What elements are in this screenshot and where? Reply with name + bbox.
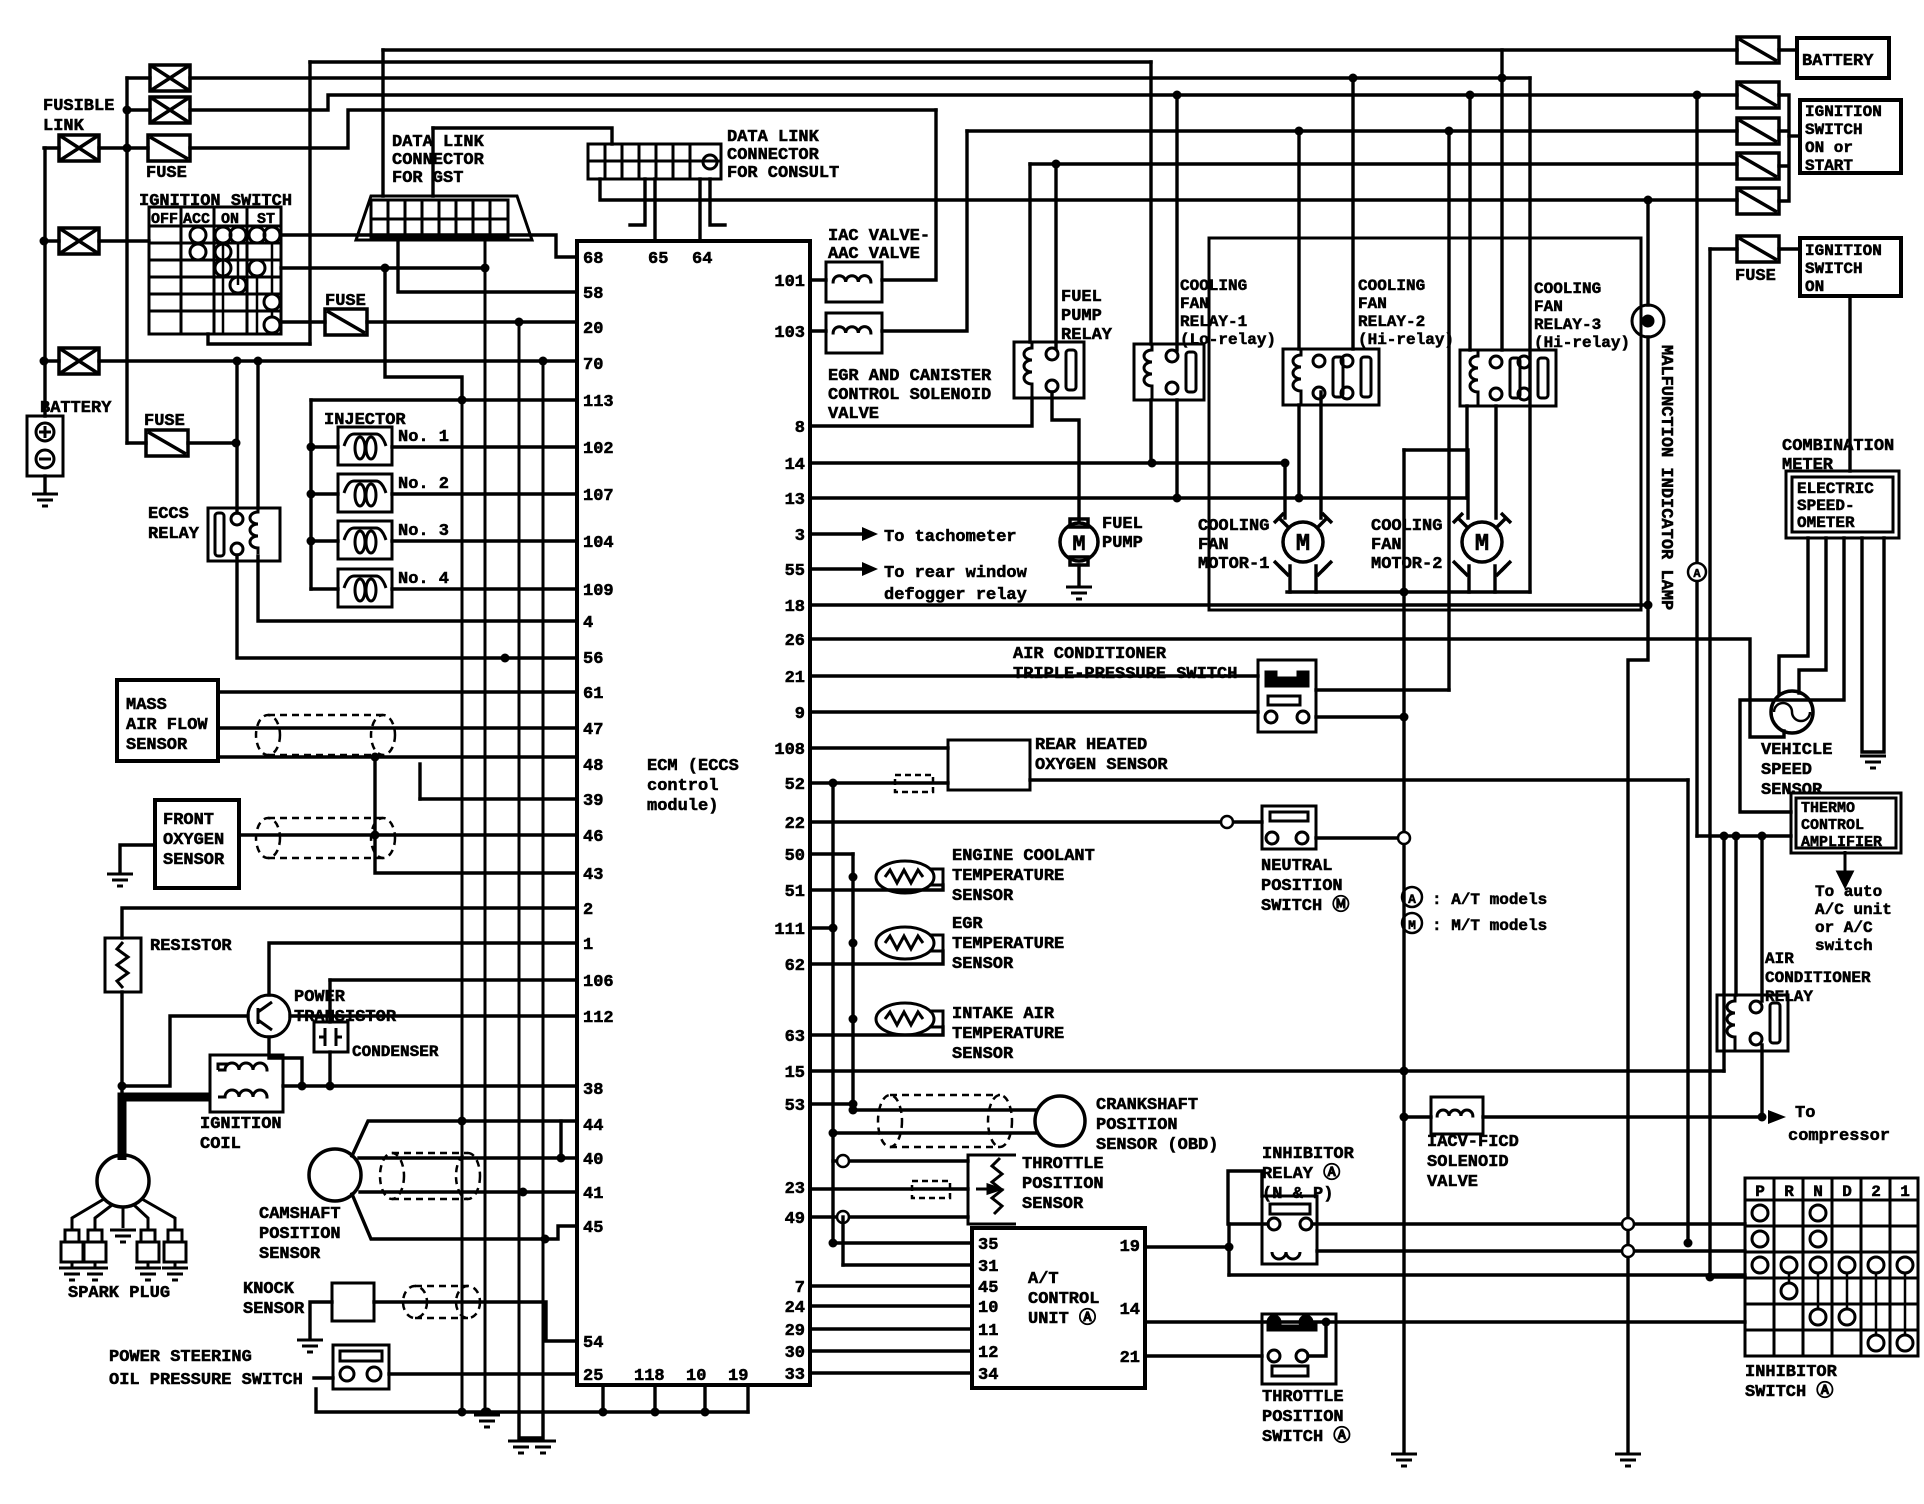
wire V1530 from L3 to motor rail — [1528, 78, 1531, 592]
wire transistor emitter to coil — [269, 1037, 302, 1086]
junction — [1466, 91, 1475, 100]
svg-text:70: 70 — [583, 356, 603, 375]
wire V1688 down to inhibitor line — [1686, 780, 1689, 1243]
svg-text:To tachometer: To tachometer — [884, 528, 1017, 547]
svg-text:SWITCH: SWITCH — [1805, 121, 1863, 139]
svg-text:ST: ST — [257, 211, 275, 228]
shielded cable knock — [403, 1286, 480, 1318]
svg-text:RELAY: RELAY — [148, 525, 200, 544]
wire resistor to coil junction — [120, 992, 123, 1097]
junction — [1644, 196, 1653, 205]
wire ECM pin 7 to A/T 45 — [810, 1284, 972, 1287]
junction — [849, 1106, 858, 1115]
wire A/T 14 line to inhibitor switch — [1145, 1320, 1745, 1323]
wire crank sensor wire 1 — [853, 1108, 1035, 1111]
junction — [118, 1082, 127, 1091]
combination meter label — [1782, 437, 1894, 475]
svg-text:A: A — [1408, 892, 1416, 907]
cooling fan relay-2 K4 — [1283, 349, 1379, 405]
svg-text:33: 33 — [785, 1366, 805, 1385]
svg-text:DATA LINK: DATA LINK — [727, 128, 820, 147]
wire MIL lamp down trunk — [1628, 337, 1648, 1452]
ground MIL trunk — [1615, 1454, 1641, 1466]
svg-text:CONNECTOR: CONNECTOR — [727, 146, 820, 165]
wire ECM pin 111 stub — [810, 926, 833, 929]
wire to FL4 — [44, 239, 59, 242]
junction — [1281, 459, 1290, 468]
svg-text:N: N — [1813, 1183, 1823, 1201]
ECCS relay label — [148, 505, 200, 544]
svg-text:VALVE: VALVE — [1427, 1173, 1478, 1192]
svg-text:3: 3 — [795, 527, 805, 546]
junction — [1400, 1113, 1409, 1122]
svg-text:module): module) — [647, 797, 718, 816]
svg-text:MOTOR-2: MOTOR-2 — [1371, 555, 1442, 574]
wire L5 from fuse F1 y110 — [190, 110, 936, 148]
arrow below thermo control amplifier — [1838, 851, 1852, 886]
engine coolant temperature sensor B6 — [876, 861, 943, 893]
rear heated oxygen sensor body — [948, 740, 1030, 790]
svg-text:15: 15 — [785, 1064, 805, 1083]
wire ECM pin 10 stub down — [703, 1385, 706, 1412]
wire pin39 jog — [418, 764, 421, 799]
fuse battery — [1737, 37, 1779, 63]
shielded cable crankshaft — [878, 1095, 1012, 1147]
svg-text:VALVE: VALVE — [828, 405, 879, 424]
wire motor-2 to CF3 contact — [1494, 406, 1497, 518]
wire thermo line to AC relay coil — [1734, 836, 1737, 995]
wire FL5 to ECM pin 70 — [99, 359, 577, 362]
connector TPS 2 — [837, 1211, 849, 1223]
wire ECM pin 55 stub — [810, 567, 862, 570]
svg-text:OFF: OFF — [151, 211, 178, 228]
svg-text:SWITCH Ⓐ: SWITCH Ⓐ — [1745, 1380, 1833, 1402]
wire FP relay coil to ECM pin 8 — [810, 398, 1032, 426]
svg-text:ON: ON — [221, 211, 239, 228]
wire L3 to CF relay-2 contact — [1351, 78, 1354, 349]
svg-text:44: 44 — [583, 1117, 603, 1136]
fusible link FL4 — [59, 228, 99, 254]
svg-text:START: START — [1805, 157, 1853, 175]
svg-text:FAN: FAN — [1534, 298, 1563, 316]
svg-text:POSITION: POSITION — [1022, 1175, 1104, 1194]
svg-text:control: control — [647, 777, 718, 796]
wire rail2 — [519, 1412, 543, 1438]
svg-text:FAN: FAN — [1198, 536, 1229, 555]
svg-text:AIR: AIR — [1765, 950, 1794, 968]
junction — [307, 490, 316, 499]
wire ignition row1 to ECM pin 68 — [281, 235, 577, 257]
wire L7 y164 — [1030, 162, 1737, 165]
wire to ignition switch bottom — [208, 334, 310, 344]
svg-text:OXYGEN: OXYGEN — [163, 831, 224, 850]
svg-text:23: 23 — [785, 1180, 805, 1199]
svg-text:39: 39 — [583, 792, 603, 811]
wire ECCS relay coil to ECM pin 4 — [258, 556, 577, 621]
wire injector No.3 to ECM — [392, 539, 577, 542]
svg-text:FOR GST: FOR GST — [392, 169, 463, 188]
svg-text:D: D — [1842, 1183, 1852, 1201]
neutral position switch S4 — [1262, 806, 1316, 849]
svg-text:10: 10 — [978, 1299, 998, 1318]
ignition coil T1 — [200, 1115, 282, 1154]
junction — [1758, 1113, 1767, 1122]
connector TPS 1 — [837, 1155, 849, 1167]
inhibitor switch S6 — [1745, 1178, 1918, 1356]
inhibitor switch header labels — [1755, 1183, 1910, 1201]
svg-text:POSITION: POSITION — [1261, 877, 1343, 896]
svg-text:8: 8 — [795, 419, 805, 438]
svg-text:29: 29 — [785, 1322, 805, 1341]
wire consult to ECM pin 65 — [653, 179, 656, 241]
wire bracket 44-40 — [559, 1121, 562, 1158]
junction — [458, 396, 467, 405]
svg-text:KNOCK: KNOCK — [243, 1280, 295, 1299]
svg-text:34: 34 — [978, 1366, 998, 1385]
svg-text:IAC VALVE-: IAC VALVE- — [828, 227, 930, 246]
svg-text:CRANKSHAFT: CRANKSHAFT — [1096, 1096, 1198, 1115]
intake air temp sensor label — [952, 1005, 1064, 1064]
wire V1724 to thermo line — [1722, 836, 1725, 1071]
svg-text:INHIBITOR: INHIBITOR — [1262, 1145, 1355, 1164]
fuse F3 — [146, 430, 188, 456]
A/T control unit left pin labels — [978, 1236, 998, 1385]
inhibitor switch label — [1745, 1363, 1838, 1402]
knock sensor B4 — [243, 1280, 305, 1319]
wire L4 to CF relay-3 coil — [1468, 95, 1471, 350]
junction — [1706, 1273, 1715, 1282]
wire camshaft to ECM pin 44 (44 line) — [352, 1121, 577, 1156]
svg-text:68: 68 — [583, 250, 603, 269]
svg-text:2: 2 — [583, 901, 593, 920]
IACV-FICD label — [1427, 1133, 1519, 1192]
fusible link FL5 — [59, 348, 99, 374]
svg-text:LINK: LINK — [43, 117, 85, 136]
cooling fan relay-1 label — [1180, 277, 1276, 349]
data link connector for CONSULT J2 — [727, 128, 839, 183]
dashed connector on 23 line — [912, 1181, 950, 1198]
cooling fan motor-2 label — [1371, 517, 1442, 574]
svg-text:SENSOR: SENSOR — [243, 1300, 305, 1319]
wire ECM pin 24 to A/T 10 — [810, 1304, 972, 1307]
wire power transistor to coil feed — [122, 1016, 248, 1086]
wire AC switch right feed — [1316, 688, 1449, 691]
svg-text:49: 49 — [785, 1210, 805, 1229]
svg-text:55: 55 — [785, 562, 805, 581]
svg-text:SENSOR (OBD): SENSOR (OBD) — [1096, 1136, 1218, 1155]
junction — [307, 443, 316, 452]
junction — [501, 654, 510, 663]
consult connector pedestal — [630, 179, 725, 225]
svg-text:MASS: MASS — [126, 696, 167, 715]
svg-text:18: 18 — [785, 598, 805, 617]
throttle position sensor B10 — [968, 1155, 1016, 1224]
EGR temperature sensor label — [952, 915, 1064, 974]
svg-text:19: 19 — [728, 1367, 748, 1386]
to auto A/C unit text — [1815, 883, 1892, 955]
svg-text:RESISTOR: RESISTOR — [150, 937, 232, 956]
svg-text:BATTERY: BATTERY — [1802, 52, 1874, 71]
svg-text:RELAY-2: RELAY-2 — [1358, 313, 1425, 331]
wire V1177 to CF relay-1 contact — [1175, 95, 1178, 350]
svg-text:45: 45 — [978, 1279, 998, 1298]
junction — [123, 144, 132, 153]
junction — [1693, 91, 1702, 100]
svg-text:COOLING: COOLING — [1180, 277, 1247, 295]
cooling fan relay-2 label — [1358, 277, 1454, 349]
junction — [1322, 1318, 1331, 1327]
wire camshaft to ECM pin 41 — [360, 1190, 577, 1193]
junction — [557, 1154, 566, 1163]
camshaft position sensor B3 — [259, 1205, 341, 1264]
svg-text:SOLENOID: SOLENOID — [1427, 1153, 1509, 1172]
svg-text:47: 47 — [583, 721, 603, 740]
EGR temperature sensor B7 — [876, 927, 943, 959]
wire V1404 trunk — [1402, 450, 1405, 1452]
junction — [123, 106, 132, 115]
cooling fan section enclosure — [1209, 238, 1641, 610]
junction — [701, 1408, 710, 1417]
junction — [849, 1015, 858, 1024]
wire condenser to ECM pin 106 — [330, 978, 577, 981]
svg-text:FUEL: FUEL — [1102, 515, 1143, 534]
svg-text:A/C unit: A/C unit — [1815, 901, 1892, 919]
cooling fan relay-3 K5 — [1460, 350, 1556, 406]
wire ECM pin 23 to TPS — [810, 1187, 968, 1190]
spark plug leads — [72, 1199, 175, 1230]
wire injector rail / ECM pin 113 — [311, 398, 577, 401]
wire trunk V462 — [461, 399, 464, 1412]
IACV-FICD solenoid valve L3 — [1431, 1097, 1483, 1134]
wire FP relay to fuel pump — [1052, 392, 1079, 522]
junction — [481, 264, 490, 273]
connector circle on V1697 — [1688, 563, 1706, 581]
svg-text:35: 35 — [978, 1236, 998, 1255]
wire injector No.2 to ECM — [392, 492, 577, 495]
arrow to tachometer — [862, 527, 878, 541]
arrow to rear window defogger — [862, 562, 878, 576]
junction — [519, 1188, 528, 1197]
svg-text:FUSIBLE: FUSIBLE — [43, 97, 114, 116]
front oxygen sensor B2 — [155, 800, 239, 888]
wire ECM pin 3 stub — [810, 532, 862, 535]
wire bracket to injector No.2 — [311, 492, 338, 495]
svg-text:AMPLIFIER: AMPLIFIER — [1801, 834, 1882, 851]
svg-text:61: 61 — [583, 685, 603, 704]
wire to CF relay-3 contact — [1500, 50, 1503, 350]
wire V1710 down — [1708, 249, 1711, 1277]
wire L8 to MIL lamp — [1646, 200, 1649, 305]
svg-text:11: 11 — [978, 1322, 998, 1341]
wire ECM pin 39 — [420, 797, 577, 800]
svg-text:SENSOR: SENSOR — [952, 955, 1014, 974]
svg-text:101: 101 — [774, 273, 805, 292]
wire thermo amp feed line — [1697, 834, 1791, 837]
svg-text:FUSE: FUSE — [144, 412, 185, 431]
svg-text:MOTOR-1: MOTOR-1 — [1198, 555, 1269, 574]
wire IAT sensor to ECM pin 63 — [810, 1027, 943, 1035]
wire motor-1 to bottom rail — [1290, 566, 1316, 592]
svg-text:: M/T models: : M/T models — [1432, 917, 1547, 935]
svg-text:41: 41 — [583, 1185, 603, 1204]
junction — [254, 357, 263, 366]
svg-text:9: 9 — [795, 705, 805, 724]
svg-text:SPARK PLUG: SPARK PLUG — [68, 1284, 170, 1303]
fuel pump label — [1102, 515, 1143, 553]
junction — [40, 357, 49, 366]
svg-text:ACC: ACC — [183, 211, 210, 228]
wire F3 to ECCS relay — [188, 441, 236, 444]
air conditioner relay K7 — [1717, 995, 1788, 1051]
svg-text:CONTROL: CONTROL — [1801, 817, 1864, 834]
svg-text:To auto: To auto — [1815, 883, 1882, 901]
wire motor-2 to V1404 — [1404, 450, 1468, 518]
svg-text:POSITION: POSITION — [1096, 1116, 1178, 1135]
svg-text:14: 14 — [1120, 1301, 1140, 1320]
ECCS relay K1 — [208, 508, 280, 561]
svg-text:SENSOR: SENSOR — [1022, 1195, 1084, 1214]
fuse F1 — [148, 135, 190, 161]
svg-text:A: A — [1693, 567, 1701, 581]
wire ECM pin 2 to resistor — [122, 908, 577, 938]
junction — [1349, 74, 1358, 83]
wire IAC valve to L5 — [882, 110, 936, 280]
IGNITION SWITCH ON box — [1800, 238, 1901, 296]
IAC valve - AAC valve L1 — [828, 227, 930, 264]
wire V237 to ECCS relay contact — [235, 361, 238, 513]
svg-text:TEMPERATURE: TEMPERATURE — [952, 867, 1064, 886]
wire FL3 to F1 — [99, 146, 148, 149]
svg-text:24: 24 — [785, 1299, 805, 1318]
svg-text:65: 65 — [648, 250, 668, 269]
wire fusible-link bus x44 — [43, 148, 46, 416]
junction — [651, 1408, 660, 1417]
wire bus x127 — [125, 78, 128, 443]
svg-text:RELAY-1: RELAY-1 — [1180, 313, 1247, 331]
wire EGR sensor to ECM pin 62 — [810, 951, 943, 964]
wire consult top bracket — [433, 128, 612, 144]
wire thermo line to AC relay contact — [1760, 836, 1763, 1001]
wire ECM pin 14 line — [810, 461, 1285, 464]
ground rail2 b — [530, 1441, 556, 1453]
svg-text:1: 1 — [583, 936, 593, 955]
wire ECT to ECM pin 51 — [810, 885, 943, 890]
ground rail2 a — [508, 1441, 534, 1453]
ignition switch internal wires — [223, 243, 272, 334]
ground speedometer — [1860, 756, 1886, 768]
fusible link FL2 — [150, 97, 190, 123]
svg-text:46: 46 — [583, 828, 603, 847]
junction — [599, 1408, 608, 1417]
svg-text:P: P — [1755, 1183, 1765, 1201]
svg-text:OXYGEN SENSOR: OXYGEN SENSOR — [1035, 756, 1168, 775]
wire camshaft to ECM pin 40 — [359, 1156, 577, 1159]
junction — [1052, 160, 1061, 169]
svg-text:COOLING: COOLING — [1534, 280, 1601, 298]
svg-text:TEMPERATURE: TEMPERATURE — [952, 1025, 1064, 1044]
legend A/T models — [1402, 887, 1422, 907]
fuel pump relay label — [1061, 288, 1113, 345]
wire V1449 — [1447, 131, 1450, 690]
svg-text:VEHICLE: VEHICLE — [1761, 741, 1832, 760]
wire ECM pin 29 to A/T 11 — [810, 1327, 972, 1330]
svg-text:58: 58 — [583, 285, 603, 304]
wire fuel pump to ground — [1077, 565, 1080, 585]
svg-text:NEUTRAL: NEUTRAL — [1261, 857, 1332, 876]
svg-text:ON or: ON or — [1805, 139, 1853, 157]
svg-text:M: M — [1072, 532, 1085, 557]
junction — [1173, 494, 1182, 503]
svg-text:COOLING: COOLING — [1198, 517, 1269, 536]
wire V843 to 31 line — [841, 1217, 844, 1265]
wire CF1 contact to 13 line — [1175, 400, 1178, 498]
wire ignition coil to ECM pin 38 — [283, 1084, 577, 1087]
svg-text:EGR: EGR — [952, 915, 983, 934]
svg-text:COOLING: COOLING — [1371, 517, 1442, 536]
wire V1056 to FP relay contact — [1054, 164, 1057, 348]
wire V1697 ignition feed to thermo — [1695, 95, 1698, 836]
EGR solenoid label — [828, 367, 992, 424]
shielded cable MAF — [256, 715, 395, 755]
svg-text:45: 45 — [583, 1219, 603, 1238]
svg-text:DATA LINK: DATA LINK — [392, 133, 485, 152]
svg-text:INTAKE AIR: INTAKE AIR — [952, 1005, 1055, 1024]
wire L4 from FL2 y95 — [190, 95, 1737, 110]
svg-text:48: 48 — [583, 757, 603, 776]
svg-text:switch: switch — [1815, 937, 1873, 955]
ECM right pin number labels — [774, 273, 805, 1385]
wire neutral switch to V1404 — [1316, 836, 1404, 839]
junction — [539, 357, 548, 366]
wire AC relay to compressor line — [1760, 1045, 1763, 1117]
wire FL2 feed — [127, 108, 150, 111]
svg-text:AIR CONDITIONER: AIR CONDITIONER — [1013, 645, 1167, 664]
svg-text:FRONT: FRONT — [163, 811, 214, 830]
wire ECM pin 18 line to MIL — [810, 603, 1648, 606]
wire battery to ground — [43, 476, 46, 492]
IGNITION SWITCH ON or START box — [1800, 100, 1901, 173]
junction — [829, 924, 838, 933]
wire ECM pin 52 line — [810, 781, 948, 784]
wire V1229 — [1227, 1224, 1230, 1275]
wire to ECM pin 43 — [375, 757, 577, 873]
wire front O2 to ECM pin 46 — [239, 833, 577, 836]
wire L2 to CF relay-1 coil — [1149, 62, 1152, 344]
junction — [1720, 832, 1729, 841]
wire bracket to injector No.4 — [311, 587, 338, 590]
junction — [1400, 1067, 1409, 1076]
svg-text:No. 2: No. 2 — [398, 475, 449, 494]
wire trunk V485 (GST leg) — [484, 240, 487, 1412]
svg-text:ECCS: ECCS — [148, 505, 189, 524]
ground fuel pump — [1066, 587, 1092, 599]
legend M/T models — [1402, 913, 1422, 933]
svg-text:SENSOR: SENSOR — [259, 1245, 321, 1264]
junction — [829, 779, 838, 788]
crossover circle 2 — [1622, 1245, 1634, 1257]
wire CF3 coil to 13 line — [1465, 406, 1468, 498]
wire consult bracket vertical — [431, 128, 434, 196]
junction — [1400, 713, 1409, 722]
arrow to compressor — [1768, 1110, 1786, 1124]
svg-text:118: 118 — [634, 1367, 665, 1386]
wire ECM pin 49 to TPS — [810, 1215, 968, 1218]
throttle position sensor label — [1022, 1155, 1104, 1214]
svg-text:113: 113 — [583, 393, 614, 412]
wire injector No.4 to ECM — [392, 587, 577, 590]
malfunction indicator lamp DS1 — [1632, 305, 1664, 337]
power transistor Q1 — [294, 988, 397, 1027]
